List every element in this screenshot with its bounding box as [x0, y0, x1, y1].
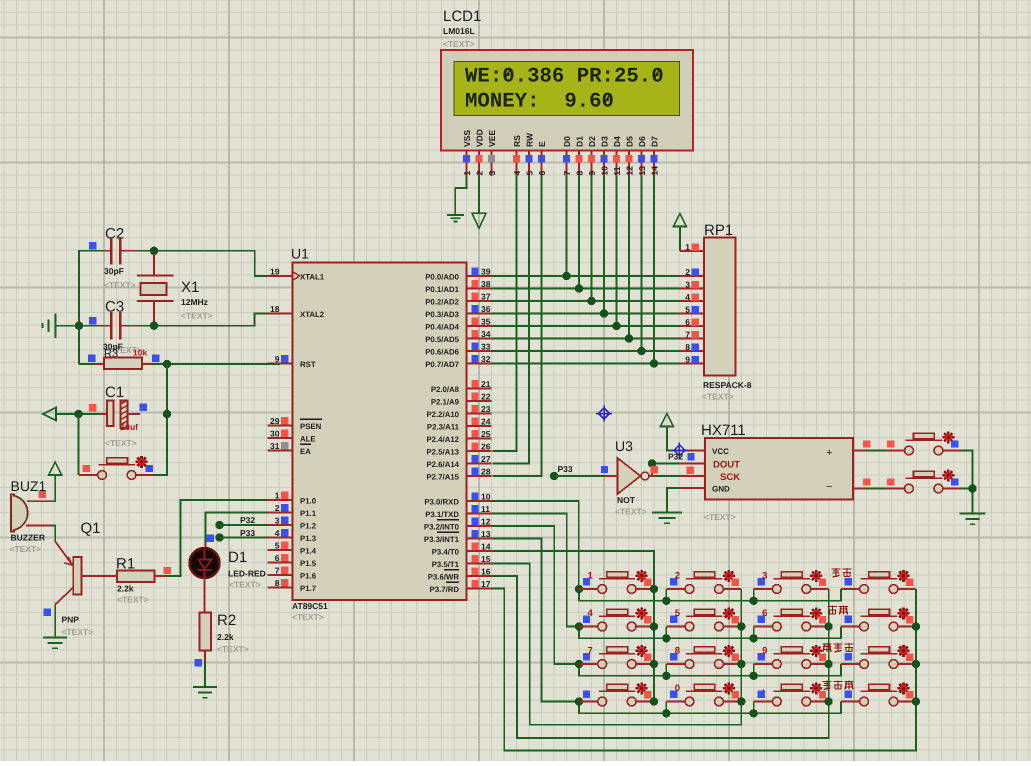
svg-text:LED-RED: LED-RED: [228, 569, 266, 579]
node D6 junction: [637, 347, 645, 355]
svg-text:P2.1/A9: P2.1/A9: [431, 397, 460, 406]
HX711 minus stub: [853, 488, 886, 490]
node row1 bypass b2: [662, 597, 670, 605]
svg-text:P0.7/AD7: P0.7/AD7: [425, 360, 459, 369]
svg-text:D7: D7: [650, 136, 660, 147]
LCD LM016L body: [441, 50, 693, 151]
svg-text:10k: 10k: [133, 348, 147, 358]
U1 pin 2 P1.1: [268, 503, 317, 518]
svg-text:15: 15: [481, 554, 491, 564]
svg-text:8: 8: [675, 646, 680, 657]
keypad button r1c1: [579, 570, 654, 594]
svg-text:Q1: Q1: [81, 520, 101, 537]
keypad button r3c4: [841, 645, 916, 669]
U1 pin 4 P1.3: [268, 528, 317, 543]
svg-text:26: 26: [481, 442, 491, 452]
wire U1 P1.1 to D1: [206, 513, 268, 544]
power arrow HX711 VCC: [660, 414, 673, 427]
svg-text:X1: X1: [181, 279, 199, 296]
svg-text:34: 34: [481, 329, 491, 339]
buzzer BUZ1: [11, 494, 28, 531]
svg-text:35: 35: [481, 317, 491, 327]
svg-text:P1.0: P1.0: [300, 496, 317, 505]
LCD pin 2 VDD: [475, 129, 485, 176]
node ground rail junction: [968, 484, 976, 492]
svg-text:P1.3: P1.3: [300, 534, 317, 543]
node row3 left: [575, 660, 583, 668]
svg-text:2: 2: [275, 503, 280, 513]
wire LCD D4 vertical: [616, 176, 618, 326]
node row2 bypass b2: [662, 634, 670, 642]
R2 label: [217, 612, 236, 629]
svg-text:P1.5: P1.5: [300, 559, 317, 568]
svg-text:5: 5: [675, 608, 681, 619]
node C1 right junction: [163, 410, 171, 418]
wire P3.4 to keypad col1: [492, 551, 654, 702]
Q1 collector state square: [44, 609, 51, 616]
svg-text:AT89C51: AT89C51: [292, 601, 328, 611]
load-cell button minus: [886, 469, 961, 493]
keypad button r1c4: [841, 570, 916, 594]
U1 pin 26 P2.5: [426, 442, 491, 457]
U1 pin 15 P3.5: [432, 554, 492, 569]
wire P3.1 to keypad row2: [492, 514, 580, 627]
node D5 junction: [625, 334, 633, 342]
svg-text:D5: D5: [625, 136, 635, 147]
svg-text:9: 9: [275, 354, 280, 364]
node row2 left: [575, 622, 583, 630]
svg-text:GND: GND: [712, 485, 730, 494]
svg-text:P3.5/T1: P3.5/T1: [432, 560, 460, 569]
node col1 r1: [650, 585, 658, 593]
origin marker mid: [596, 406, 612, 422]
svg-text:9: 9: [587, 171, 597, 176]
svg-text:4: 4: [512, 171, 522, 176]
svg-text:U1: U1: [291, 246, 309, 262]
svg-text:33: 33: [481, 342, 491, 352]
svg-text:5: 5: [685, 304, 690, 314]
svg-text:14: 14: [650, 166, 660, 176]
svg-text:22: 22: [481, 392, 491, 402]
wire P0.3 to RP1 pin5: [492, 313, 680, 315]
svg-text:7: 7: [588, 646, 593, 657]
svg-text:1: 1: [685, 242, 690, 252]
resistor R2: [200, 613, 212, 662]
LCD pin 8 D1: [575, 136, 585, 176]
wire LCD VDD: [478, 176, 480, 213]
wire P0.7 to RP1 pin9: [492, 363, 680, 365]
svg-text:P0.2/AD2: P0.2/AD2: [425, 297, 459, 306]
LCD pin 4 RS: [512, 135, 522, 176]
RP1 sub-labels: [702, 380, 752, 402]
ground LCD VSS: [447, 215, 464, 221]
LCD pin 9 D2: [587, 136, 597, 176]
RP1 pin 4: [680, 292, 704, 302]
node row2 bypass b3: [749, 634, 757, 642]
svg-text:5: 5: [525, 171, 535, 176]
node row3 bypass b2: [662, 672, 670, 680]
wire R1 to U1 P1.0: [167, 500, 268, 576]
U1 pin 36 P0.3: [425, 304, 491, 319]
minus wire state squares: [863, 478, 894, 485]
wire LCD RS to U1 pin26: [492, 176, 516, 451]
svg-text:RESPACK-8: RESPACK-8: [703, 380, 752, 390]
net label P33 at U3: [550, 464, 605, 480]
svg-text:P3.3/INT1: P3.3/INT1: [424, 535, 460, 544]
svg-text:21: 21: [481, 379, 491, 389]
U1 sub-labels: [292, 601, 328, 622]
svg-text:36: 36: [481, 304, 491, 314]
U1 pin 38 P0.1: [425, 279, 491, 294]
svg-text:DOUT: DOUT: [713, 460, 740, 471]
LCD text line1: [465, 65, 664, 88]
node row4 bypass b3: [749, 709, 757, 717]
svg-text:P33: P33: [240, 528, 255, 538]
svg-text:3: 3: [275, 516, 280, 526]
U3 output state square: [651, 466, 658, 473]
svg-text:19: 19: [270, 267, 280, 277]
C3 value overlap: [103, 342, 147, 361]
svg-text:P2.2/A10: P2.2/A10: [426, 410, 459, 419]
svg-text:23: 23: [481, 404, 491, 414]
RP1 pin 7: [680, 329, 704, 339]
LED D1: [190, 543, 220, 578]
buzzer bottom lead: [26, 525, 51, 527]
node D4 junction: [612, 322, 620, 330]
LCD pin 6 E: [537, 141, 547, 176]
keypad button r4c2: [666, 682, 741, 706]
svg-text:7: 7: [275, 566, 280, 576]
LCD pin 13 D6: [637, 136, 647, 176]
svg-text:P1.2: P1.2: [300, 521, 317, 530]
U1 pin 32 P0.7: [425, 354, 491, 369]
svg-text:+: +: [826, 447, 832, 459]
keypad label row1 cn: [832, 568, 852, 577]
U1 pin 8 P1.7: [268, 578, 317, 593]
U1 pin 30 ALE: [268, 429, 316, 444]
keypad row1 riser b2: [665, 589, 667, 601]
node D0 junction: [562, 272, 570, 280]
keypad row2 bypass wire: [579, 627, 841, 639]
R1 label: [116, 556, 135, 573]
plus wire state squares: [863, 440, 894, 447]
svg-text:XTAL1: XTAL1: [300, 272, 325, 281]
svg-text:10: 10: [481, 492, 491, 502]
node row1 left: [575, 585, 583, 593]
node col junction: [912, 622, 920, 630]
svg-text:1: 1: [462, 171, 472, 176]
wire C3 left to ground: [56, 325, 104, 327]
svg-text:6: 6: [275, 553, 280, 563]
LCD pin 5 RW: [525, 132, 535, 176]
HX711 SCK stub: [680, 475, 705, 477]
power arrow RP1: [673, 214, 686, 227]
svg-text:D1: D1: [228, 549, 247, 566]
node C1 left junction: [74, 410, 82, 418]
svg-text:9: 9: [762, 646, 767, 657]
svg-text:8: 8: [685, 342, 690, 352]
wire LCD VSS to ground: [455, 176, 466, 215]
svg-text:3: 3: [762, 571, 767, 582]
svg-text:BUZZER: BUZZER: [11, 533, 45, 543]
svg-text:P0.0/AD0: P0.0/AD0: [425, 272, 459, 281]
ground R2: [193, 687, 217, 698]
wire reset button right: [78, 474, 80, 476]
svg-text:P0.3/AD3: P0.3/AD3: [425, 310, 459, 319]
node D7 junction: [650, 359, 658, 367]
keypad button r3c3: [754, 645, 829, 669]
svg-text:NOT: NOT: [617, 495, 636, 505]
LCD pin 10 D3: [600, 136, 610, 176]
svg-text:2.2k: 2.2k: [117, 584, 134, 594]
power arrow above Q1: [49, 462, 62, 475]
svg-text:38: 38: [481, 279, 491, 289]
svg-text:24: 24: [481, 417, 491, 427]
svg-text:D1: D1: [575, 136, 585, 147]
svg-text:2: 2: [685, 267, 690, 277]
keypad button r1c3: [754, 570, 829, 594]
svg-text:P33: P33: [558, 464, 573, 474]
wire LCD D1 vertical: [578, 176, 580, 289]
U1 pin 9 RST: [268, 354, 316, 369]
U1 pin 18 XTAL2: [268, 304, 325, 319]
node col1 r4: [650, 697, 658, 705]
svg-text:13: 13: [481, 529, 491, 539]
svg-text:P3.6/WR: P3.6/WR: [428, 572, 460, 581]
C2 label: [105, 226, 124, 243]
svg-text:<TEXT>: <TEXT>: [615, 507, 647, 517]
wire P0.6 to RP1 pin8: [492, 350, 680, 352]
svg-text:17: 17: [481, 579, 491, 589]
HX711 sub-label: [704, 512, 736, 522]
svg-text:6: 6: [685, 317, 690, 327]
node R3 junction: [163, 360, 171, 368]
svg-text:P32: P32: [240, 515, 255, 525]
svg-text:P32: P32: [668, 452, 683, 462]
reset button: [79, 456, 154, 480]
svg-text:RS: RS: [512, 135, 522, 147]
svg-text:P0.6/AD6: P0.6/AD6: [425, 347, 459, 356]
U1 pin 34 P0.5: [425, 329, 491, 344]
crystal X1: [137, 253, 174, 323]
svg-text:XTAL2: XTAL2: [300, 310, 325, 319]
U1 pin 1 P1.0: [268, 491, 317, 506]
keypad button r4c3: [754, 682, 829, 706]
svg-text:P1.4: P1.4: [300, 546, 317, 555]
svg-text:25: 25: [481, 429, 491, 439]
node col junction: [737, 660, 745, 668]
U1 pin 37 P0.2: [425, 292, 491, 307]
wire LCD D7 vertical: [653, 176, 655, 364]
LCD pin 14 D7: [650, 136, 660, 176]
U1 pin 7 P1.6: [268, 566, 317, 581]
capacitor C3: [103, 312, 138, 340]
svg-text:P3.1/TXD: P3.1/TXD: [425, 510, 459, 519]
svg-text:2.2k: 2.2k: [217, 632, 234, 642]
svg-text:PNP: PNP: [62, 615, 80, 625]
svg-text:10uf: 10uf: [121, 422, 139, 432]
svg-text:<TEXT>: <TEXT>: [217, 644, 249, 654]
svg-text:RW: RW: [525, 132, 535, 147]
origin marker P32: [671, 442, 687, 458]
svg-text:P2.5/A13: P2.5/A13: [426, 447, 459, 456]
svg-text:<TEXT>: <TEXT>: [292, 612, 324, 622]
HX711 DOUT stub: [680, 463, 705, 465]
wire LCD D3 vertical: [603, 176, 605, 314]
keypad button r2c4: [841, 607, 916, 631]
HX711 GND stub: [680, 487, 705, 489]
svg-text:4: 4: [685, 292, 690, 302]
keypad button r4c1: [579, 682, 654, 706]
svg-text:VCC: VCC: [712, 447, 729, 456]
C2 value: [104, 266, 136, 290]
svg-text:P0.5/AD5: P0.5/AD5: [425, 335, 459, 344]
svg-text:.: .: [762, 683, 765, 694]
wire LCD D5 vertical: [628, 176, 630, 339]
svg-text:<TEXT>: <TEXT>: [443, 39, 475, 49]
svg-text:28: 28: [481, 467, 491, 477]
keypad row2 riser b2: [665, 627, 667, 639]
U1 pin 28 P2.7: [426, 467, 491, 482]
HX711 pin names: [712, 447, 832, 494]
keypad label row4 cn: [823, 681, 854, 690]
wire C1 down to reset button: [78, 414, 80, 475]
Q1 type labels: [62, 615, 94, 638]
node col junction: [912, 660, 920, 668]
RP1 pin 1: [680, 242, 704, 252]
keypad row3 riser b3: [753, 664, 755, 676]
U1 pin 16 P3.6: [428, 567, 492, 582]
svg-text:8: 8: [275, 578, 280, 588]
svg-text:37: 37: [481, 292, 491, 302]
svg-text:10: 10: [600, 166, 610, 176]
svg-text:D4: D4: [612, 136, 622, 147]
X1 label: [181, 279, 213, 321]
U1 pin 25 P2.4: [426, 429, 491, 444]
HX711 body: [705, 438, 853, 500]
wire P3.2 to keypad row3: [492, 526, 580, 664]
ground right rail: [960, 514, 986, 525]
svg-text:VDD: VDD: [475, 129, 485, 147]
node row4 bypass b2: [662, 709, 670, 717]
U1 pin 23 P2.2: [426, 404, 491, 419]
U1 pin 12 P3.2: [424, 517, 492, 532]
keypad button r2c3: [754, 607, 829, 631]
RP1 label: [704, 222, 733, 239]
node col junction: [737, 697, 745, 705]
U1 pin 39 P0.0: [425, 267, 491, 282]
svg-text:SCK: SCK: [720, 472, 740, 483]
node DOUT junction: [648, 459, 656, 467]
svg-text:30: 30: [270, 429, 280, 439]
U1 pin 31 EA: [268, 441, 312, 456]
U1 pin 33 P0.6: [425, 342, 491, 357]
U1 pin 3 P1.2: [268, 516, 317, 531]
node C3 left junction: [75, 322, 83, 330]
svg-text:3: 3: [685, 279, 690, 289]
svg-text:C1: C1: [105, 384, 124, 401]
wire C2 left: [79, 251, 103, 364]
svg-text:P3.4/T0: P3.4/T0: [432, 547, 460, 556]
keypad button r3c1: [579, 645, 654, 669]
svg-text:D6: D6: [637, 136, 647, 147]
RP1 pin 8: [680, 342, 704, 352]
R3 state squares: [88, 355, 159, 362]
keypad row3 riser b2: [665, 664, 667, 676]
R1 value: [117, 584, 149, 605]
svg-text:PSEN: PSEN: [300, 422, 322, 431]
RP1 body: [704, 238, 736, 376]
node col junction: [824, 660, 832, 668]
wire LCD D2 vertical: [591, 176, 593, 301]
svg-text:P3.0/RXD: P3.0/RXD: [424, 497, 459, 506]
LCD pin 3 VEE: [487, 130, 497, 176]
node col1 r2: [650, 622, 658, 630]
RP1 pin 6: [680, 317, 704, 327]
R1 state square: [164, 567, 171, 574]
Q1 label: [81, 520, 101, 537]
RP1 pin 5: [680, 304, 704, 314]
U1 pin 24 P2.3: [427, 417, 492, 432]
capacitor C2: [103, 237, 138, 265]
svg-text:12: 12: [481, 517, 491, 527]
svg-text:11: 11: [612, 166, 622, 175]
C1 squares: [89, 404, 147, 412]
resistor R1: [82, 571, 168, 583]
svg-text:D2: D2: [587, 136, 597, 147]
wire arrow to buzzer top: [51, 475, 55, 501]
wire HX711 GND to ground: [667, 488, 680, 513]
LCD pin 11 D4: [612, 136, 622, 176]
wire P0.0 to RP1 pin2: [492, 275, 680, 277]
svg-text:VSS: VSS: [462, 130, 472, 147]
node row1 bypass b3: [749, 597, 757, 605]
svg-text:14: 14: [481, 542, 491, 552]
wire U3 out to DOUT: [652, 464, 680, 477]
svg-text:9: 9: [685, 354, 690, 364]
LCD pin 12 D5: [625, 136, 635, 176]
svg-text:P1.7: P1.7: [300, 584, 316, 593]
node row3 bypass b3: [749, 672, 757, 680]
svg-text:32: 32: [481, 354, 491, 364]
svg-text:12MHz: 12MHz: [181, 297, 208, 307]
node col1 r3: [650, 660, 658, 668]
svg-text:12: 12: [625, 166, 635, 176]
wire buzzer to Q1 emitter: [51, 526, 55, 542]
BUZ1 state square: [39, 491, 46, 498]
svg-text:P2.3/A11: P2.3/A11: [427, 422, 460, 431]
wire R2 to ground: [204, 662, 206, 688]
node col junction: [824, 622, 832, 630]
resistor R3: [96, 358, 152, 370]
svg-text:39: 39: [481, 267, 491, 277]
svg-text:<TEXT>: <TEXT>: [62, 627, 94, 637]
wire LCD RW to U1 pin27: [492, 176, 529, 464]
HX711 state squares: [687, 453, 695, 474]
power arrow left of C1: [43, 408, 56, 421]
wire P3.5 to keypad col2: [492, 564, 742, 725]
svg-text:29: 29: [270, 416, 280, 426]
wire power to VCC: [667, 427, 680, 451]
wire P3.0 to keypad row1: [492, 501, 579, 589]
net label P32: [215, 515, 267, 529]
svg-text:<TEXT>: <TEXT>: [702, 392, 734, 402]
svg-text:E: E: [537, 141, 547, 147]
HX711 plus stub: [853, 450, 886, 452]
HX711 label: [701, 422, 746, 439]
svg-text:<TEXT>: <TEXT>: [181, 311, 213, 321]
svg-text:VEE: VEE: [487, 130, 497, 147]
